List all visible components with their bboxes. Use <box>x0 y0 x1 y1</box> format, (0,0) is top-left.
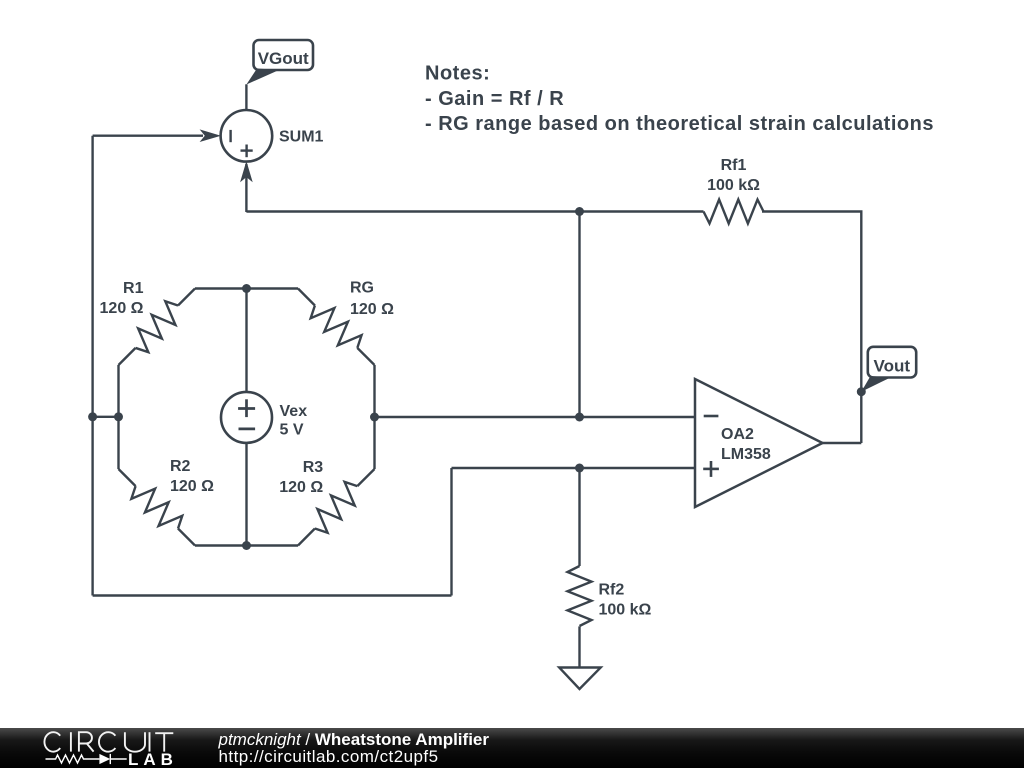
svg-text:Vout: Vout <box>874 357 911 376</box>
svg-text:LAB: LAB <box>128 750 178 768</box>
svg-text:http://circuitlab.com/ct2upf5: http://circuitlab.com/ct2upf5 <box>219 747 439 766</box>
wire Rf2 top vertical <box>578 468 580 566</box>
svg-text:- RG range based on theoretica: - RG range based on theoretical strain c… <box>425 113 934 135</box>
wire left vertical from SUM1 input down to bottom rail <box>91 136 93 596</box>
wire SUM1 bottom feedback horizontal <box>246 210 703 212</box>
wire RG lead lower <box>357 348 374 365</box>
resistor R1 zigzag <box>127 297 186 356</box>
SUM1 pin mark | <box>229 130 231 142</box>
Vex minus <box>239 428 256 431</box>
svg-text:5 V: 5 V <box>280 422 304 439</box>
wire R2 lead lower <box>178 529 195 546</box>
wire R3 lead lower <box>298 529 315 546</box>
svg-text:120 Ω: 120 Ω <box>350 301 394 318</box>
wire from Rf1 node down to op-amp minus input <box>578 212 580 418</box>
wire bridge top stub right <box>247 287 299 289</box>
junction feedback top <box>575 207 584 216</box>
junction minus input <box>575 413 584 422</box>
wire left stub into bridge <box>93 416 119 418</box>
arrowhead into SUM1 left <box>200 129 221 142</box>
wire R1 lead lower <box>119 348 136 365</box>
wire Vex bottom <box>245 443 247 546</box>
resistor Rf2 zigzag <box>568 566 592 626</box>
junction bridge right <box>370 413 379 422</box>
logo resistor-diode glyph <box>46 754 127 764</box>
VGout callout tail <box>246 69 279 85</box>
svg-text:120 Ω: 120 Ω <box>170 478 214 495</box>
op-amp OA2 triangle <box>695 379 823 507</box>
wire from Rf1 right to output corner <box>762 212 861 444</box>
resistor R3 zigzag <box>306 478 365 537</box>
net flag VGout box <box>254 40 314 70</box>
svg-text:- Gain = Rf / R: - Gain = Rf / R <box>425 88 564 110</box>
wire R2 lead upper <box>119 469 136 486</box>
wire R1 lead upper <box>178 289 195 306</box>
svg-text:R1: R1 <box>123 280 144 297</box>
wire VGout tail to SUM1 top <box>245 84 247 110</box>
svg-text:VGout: VGout <box>258 49 309 68</box>
junction plus input <box>575 464 584 473</box>
resistor RG zigzag <box>306 297 365 356</box>
net flag Vout box <box>868 347 916 378</box>
CircuitLab logo wordmark CIRCUIT <box>44 732 173 752</box>
wire bridge bottom stub right <box>247 544 299 546</box>
wire op-amp plus input <box>452 467 696 469</box>
resistor Rf1 zigzag <box>704 200 764 224</box>
junction bridge left <box>114 412 123 421</box>
op-amp plus sign <box>703 468 719 471</box>
svg-text:Notes:: Notes: <box>425 63 490 85</box>
junction bridge bottom <box>242 541 251 550</box>
SUM1 pin mark + <box>241 149 253 151</box>
wire bridge bottom stub left <box>195 544 247 546</box>
wire Rf2 bottom to ground <box>578 626 580 668</box>
svg-text:100 kΩ: 100 kΩ <box>599 602 652 619</box>
source Vex circle <box>221 392 272 443</box>
svg-text:Rf1: Rf1 <box>721 157 747 174</box>
svg-text:120 Ω: 120 Ω <box>279 479 323 496</box>
summing block SUM1 circle <box>221 110 273 162</box>
svg-text:120 Ω: 120 Ω <box>100 300 144 317</box>
ground symbol triangle <box>559 668 601 690</box>
svg-text:100 kΩ: 100 kΩ <box>707 177 760 194</box>
svg-text:R3: R3 <box>303 459 324 476</box>
wire SUM1 bottom input vertical <box>245 164 247 212</box>
svg-text:RG: RG <box>350 280 374 297</box>
wire bridge left vertical stubs <box>117 365 119 469</box>
svg-text:Rf2: Rf2 <box>599 582 625 599</box>
wire R3 lead upper <box>357 469 374 486</box>
svg-text:Vex: Vex <box>280 403 308 420</box>
wire bridge output to op-amp minus input <box>375 416 696 418</box>
wire bottom rail <box>93 594 452 596</box>
wire RG lead upper <box>298 289 315 306</box>
Vout callout tail <box>861 376 890 392</box>
svg-text:R2: R2 <box>170 458 191 475</box>
junction at bridge top <box>242 284 251 293</box>
wire Vex top <box>245 289 247 393</box>
wire bridge top stub left <box>195 287 247 289</box>
svg-text:SUM1: SUM1 <box>279 129 324 146</box>
wire op-amp output <box>823 442 862 444</box>
junction left rail <box>88 412 97 421</box>
svg-text:LM358: LM358 <box>721 446 771 463</box>
Vex plus <box>238 407 255 410</box>
arrowhead into SUM1 bottom <box>240 161 253 182</box>
junction output node <box>857 387 866 396</box>
wire bridge right vertical stubs <box>373 365 375 469</box>
svg-text:OA2: OA2 <box>721 426 754 443</box>
wire left input into SUM1 <box>93 134 203 136</box>
op-amp minus sign <box>704 415 719 418</box>
resistor R2 zigzag <box>127 478 186 537</box>
wire rising from bottom rail to op-amp plus level <box>450 468 452 596</box>
